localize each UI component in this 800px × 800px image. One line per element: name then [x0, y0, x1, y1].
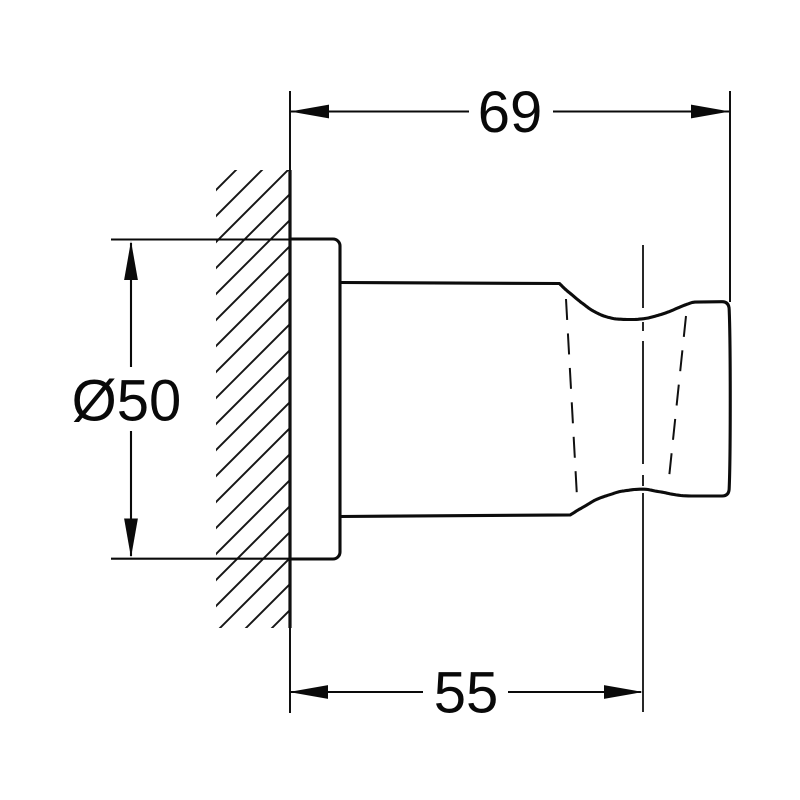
arrowhead top of dim D50: [124, 241, 138, 280]
svg-text:55: 55: [434, 661, 499, 726]
svg-text:Ø50: Ø50: [72, 369, 182, 434]
dimension line 69: [291, 110, 729, 112]
hidden cup contour right (dashed): [669, 316, 686, 478]
wall hatching: [0, 150, 776, 680]
wall face thick segment: [288, 170, 291, 628]
cup axis center line / right extension of dim 55: [642, 245, 644, 712]
dimension line D50: [130, 243, 132, 556]
hidden cup contour left (dashed): [566, 299, 577, 497]
arrowhead bottom of dim D50: [124, 519, 138, 558]
arrowhead left of dim 69: [290, 105, 329, 119]
arrowhead left of dim 55: [289, 685, 328, 699]
arrowhead right of dim 69: [691, 105, 730, 119]
holder body and cup outline: [340, 283, 730, 517]
extension lines of dim D50: [111, 240, 289, 559]
dimension line 55: [291, 691, 641, 693]
right extension line of dim 69: [729, 91, 731, 302]
wall face line / extension line for dims 69 and 55: [289, 91, 291, 713]
svg-text:69: 69: [478, 80, 543, 145]
arrowhead right of dim 55: [604, 685, 643, 699]
wall flange plate outline: [289, 239, 340, 559]
